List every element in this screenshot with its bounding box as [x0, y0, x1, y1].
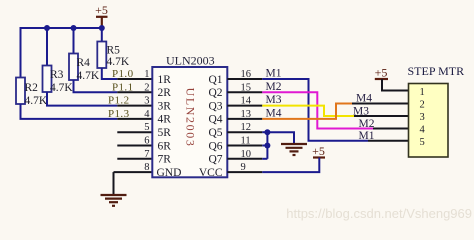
svg-text:Q3: Q3	[208, 100, 222, 112]
svg-text:M4: M4	[266, 107, 282, 119]
svg-text:4R: 4R	[158, 114, 172, 126]
svg-text:STEP MTR: STEP MTR	[408, 64, 465, 78]
pin 10 stub	[227, 158, 262, 160]
wire M4 black segment to connector	[352, 103, 409, 105]
svg-text:3R: 3R	[158, 100, 172, 112]
svg-text:6: 6	[144, 136, 149, 147]
connector J1 STEP MTR	[409, 84, 449, 158]
pin 1 stub	[117, 78, 152, 80]
svg-text:M4: M4	[356, 93, 372, 105]
label R5 value	[107, 45, 130, 69]
svg-text:6R: 6R	[158, 140, 172, 152]
wire M4 orange	[262, 104, 352, 119]
svg-text:Q2: Q2	[208, 87, 222, 99]
wire top bus	[20, 27, 102, 29]
svg-text:Q6: Q6	[208, 140, 222, 152]
svg-text:4.7K: 4.7K	[50, 82, 73, 94]
svg-text:4: 4	[144, 109, 150, 120]
resistor R3	[43, 66, 52, 93]
svg-text:R2: R2	[25, 82, 39, 94]
svg-text:12: 12	[241, 122, 252, 133]
wire R4 bottom to pin2	[74, 80, 118, 92]
wire connector pin1	[382, 79, 409, 91]
svg-text:ULN2003: ULN2003	[166, 54, 215, 68]
svg-text:4.7K: 4.7K	[25, 95, 48, 107]
svg-text:4: 4	[420, 124, 426, 135]
wire to ground 2	[267, 132, 294, 143]
svg-text:14: 14	[241, 96, 252, 107]
svg-text:R5: R5	[107, 45, 121, 57]
wire VCC pin9	[262, 158, 319, 173]
pin 14 stub	[227, 105, 262, 107]
ground middle	[281, 144, 307, 155]
svg-text:3: 3	[144, 96, 149, 107]
svg-text:16: 16	[241, 69, 252, 80]
pin 3 stub	[117, 105, 152, 107]
svg-text:M1: M1	[359, 130, 375, 142]
wire R3 bottom to pin3	[47, 92, 117, 106]
wire R2 top drop	[20, 27, 22, 78]
svg-text:5R: 5R	[158, 127, 172, 139]
svg-text:4.7K: 4.7K	[107, 56, 130, 68]
svg-text:R3: R3	[50, 69, 64, 81]
power +5 symbol connector	[375, 78, 388, 80]
wire M3 black segment to connector	[354, 115, 409, 117]
svg-text:VCC: VCC	[199, 167, 223, 179]
svg-text:Q1: Q1	[208, 74, 222, 86]
wire M1 blue	[262, 79, 368, 141]
svg-text:M2: M2	[266, 81, 282, 93]
power +5 symbol VCC	[313, 156, 325, 158]
pin 4 stub	[117, 118, 152, 120]
wire pins 12-11-10 tie	[262, 132, 267, 159]
wire M1 black segment to connector	[368, 140, 409, 142]
pin 8 stub	[114, 171, 153, 173]
node junction R4 bus	[71, 25, 77, 31]
svg-text:4.7K: 4.7K	[77, 70, 100, 82]
pin 9 stub	[227, 171, 262, 173]
op-amp U1 ULN2003 IC body	[152, 67, 227, 177]
svg-text:15: 15	[241, 82, 252, 93]
svg-text:5: 5	[144, 122, 149, 133]
wire R5 top drop	[101, 28, 103, 42]
resistor R5	[97, 42, 106, 69]
node junction R3 bus	[44, 25, 50, 31]
svg-text:1R: 1R	[158, 74, 172, 86]
svg-text:https://blog.csdn.net/Vsheng96: https://blog.csdn.net/Vsheng969	[286, 206, 472, 221]
svg-text:R4: R4	[77, 57, 91, 69]
node junction pin11	[264, 143, 270, 149]
wire R2 bottom to pin4	[21, 104, 118, 119]
pin 13 stub	[227, 118, 262, 120]
svg-text:3: 3	[420, 112, 425, 123]
pin 11 stub	[227, 145, 262, 147]
wire M2 magenta	[262, 92, 373, 128]
wire R3 top drop	[46, 28, 48, 66]
svg-text:+5: +5	[312, 144, 325, 158]
svg-text:7R: 7R	[158, 154, 172, 166]
pin 5 stub	[117, 131, 152, 133]
svg-text:M3: M3	[266, 94, 282, 106]
svg-text:Q5: Q5	[208, 127, 222, 139]
svg-text:Q4: Q4	[208, 114, 222, 126]
svg-text:+5: +5	[375, 66, 388, 80]
node junction pin12	[264, 129, 270, 135]
svg-text:Q7: Q7	[208, 154, 222, 166]
svg-text:1: 1	[144, 69, 149, 80]
pin 7 stub	[117, 158, 152, 160]
svg-text:11: 11	[241, 136, 251, 147]
pin 16 stub	[227, 78, 262, 80]
svg-text:M3: M3	[353, 106, 369, 118]
svg-text:7: 7	[144, 149, 149, 160]
svg-text:10: 10	[241, 149, 252, 160]
svg-text:M1: M1	[266, 68, 282, 80]
svg-text:ULN2003: ULN2003	[184, 88, 198, 148]
svg-text:1: 1	[420, 87, 425, 98]
svg-text:2R: 2R	[158, 87, 172, 99]
svg-text:2: 2	[144, 82, 149, 93]
svg-text:9: 9	[241, 162, 246, 173]
resistor R4	[69, 54, 78, 81]
resistor R2	[16, 78, 25, 105]
svg-text:M2: M2	[359, 118, 375, 130]
wire R4 top drop	[73, 28, 75, 54]
label R2 value	[25, 82, 48, 107]
svg-text:GND: GND	[157, 167, 182, 179]
svg-text:8: 8	[144, 162, 149, 173]
wire R5 bottom to pin1	[102, 68, 118, 79]
svg-text:5: 5	[420, 137, 425, 148]
pin 15 stub	[227, 91, 262, 93]
power +5 symbol top-left	[96, 17, 108, 28]
ground below pin 8	[101, 172, 127, 206]
svg-text:2: 2	[420, 99, 425, 110]
pin 12 stub	[227, 131, 262, 133]
pin 6 stub	[117, 145, 152, 147]
wire M3 yellow	[262, 106, 354, 116]
label R3 value	[50, 69, 73, 94]
node junction R5 bus	[99, 25, 105, 31]
svg-text:+5: +5	[95, 3, 108, 17]
svg-text:13: 13	[241, 109, 252, 120]
wire M2 black segment to connector	[373, 128, 409, 130]
label R4 value	[77, 57, 100, 82]
pin 2 stub	[117, 91, 152, 93]
